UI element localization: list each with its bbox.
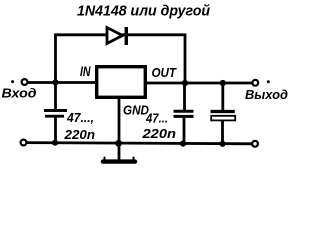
wire GND stub	[118, 99, 121, 160]
junction bottom rail / C3	[219, 141, 225, 147]
terminal input -	[21, 140, 27, 146]
svg-text:220n: 220n	[141, 126, 176, 141]
svg-text:220n: 220n	[63, 127, 95, 142]
svg-text:Вход: Вход	[2, 87, 37, 101]
capacitor C3 (electrolytic)	[211, 112, 236, 121]
junction top rail / diode+C1	[52, 79, 58, 85]
terminal input +	[22, 79, 28, 85]
capacitor C2	[174, 111, 194, 116]
svg-text:OUT: OUT	[152, 65, 177, 80]
junction top rail / C3	[220, 80, 226, 86]
junction bottom rail / GND	[115, 140, 122, 147]
regulator IC U1 box	[97, 67, 146, 98]
svg-text:47...: 47...	[145, 111, 168, 126]
junction bottom rail / C2	[180, 141, 186, 147]
wire top rail (input to IC IN, IC OUT to output)	[28, 81, 252, 84]
svg-text:1N4148 или другой: 1N4148 или другой	[77, 3, 210, 19]
ground symbol	[103, 159, 135, 163]
wire C3 branch	[221, 83, 224, 144]
polarity dot input	[11, 80, 14, 83]
wire C1 branch	[54, 83, 57, 144]
junction top rail / diode+C2	[182, 80, 188, 86]
junction bottom rail / C1	[52, 140, 58, 146]
wire C2 branch	[183, 83, 186, 144]
capacitor C1	[44, 111, 67, 117]
wire bottom rail	[24, 143, 255, 144]
wire diode branch	[56, 35, 186, 83]
svg-text:IN: IN	[80, 64, 91, 79]
svg-text:47...,: 47...,	[66, 110, 94, 125]
terminal output -	[252, 141, 258, 147]
terminal output +	[252, 80, 258, 86]
svg-text:Выход: Выход	[245, 88, 288, 102]
polarity dot output	[267, 80, 270, 83]
diode VD1	[107, 27, 128, 45]
